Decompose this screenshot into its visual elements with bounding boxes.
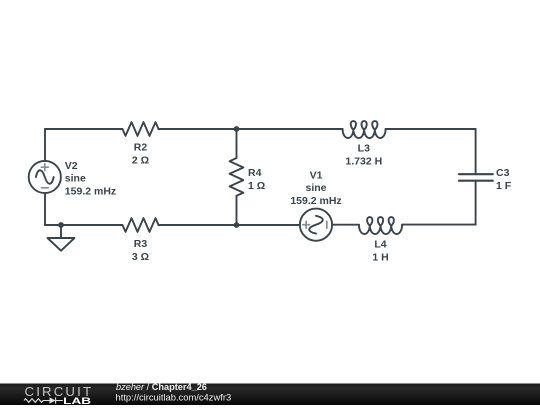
svg-text:http://circuitlab.com/c4zwfr3: http://circuitlab.com/c4zwfr3	[116, 391, 232, 402]
svg-text:L4: L4	[374, 239, 386, 251]
svg-text:1.732 H: 1.732 H	[345, 156, 382, 168]
inductor L4	[359, 217, 402, 234]
wire bottom right	[402, 224, 476, 226]
svg-text:R2: R2	[134, 142, 148, 154]
junction node top	[234, 126, 240, 132]
capacitor C3	[459, 174, 493, 181]
junction node ground	[58, 222, 64, 228]
wire right upper vertical	[475, 129, 477, 174]
svg-text:sine: sine	[305, 182, 326, 194]
label C3	[496, 167, 512, 192]
label V2	[65, 160, 116, 197]
resistor R2	[122, 122, 158, 136]
wire middle lower vertical	[236, 196, 238, 225]
svg-text:C3: C3	[496, 167, 510, 179]
svg-text:R3: R3	[134, 238, 148, 250]
inductor L3	[343, 121, 386, 138]
svg-text:1 H: 1 H	[372, 252, 388, 264]
svg-text:1 Ω: 1 Ω	[248, 180, 265, 192]
resistor R4	[230, 158, 244, 196]
svg-text:2 Ω: 2 Ω	[132, 155, 149, 167]
wire left lower vertical	[44, 193, 46, 225]
svg-text:L3: L3	[358, 143, 370, 155]
logo resistor zigzag and diode	[24, 397, 63, 403]
svg-text:V1: V1	[310, 170, 323, 182]
resistor R3	[122, 218, 158, 232]
label V1	[290, 170, 341, 207]
ground symbol	[48, 225, 75, 251]
wire top right	[386, 128, 476, 130]
label R3	[132, 238, 149, 263]
voltage source V2 circle	[29, 161, 61, 193]
svg-text:159.2 mHz: 159.2 mHz	[65, 185, 116, 197]
svg-text:V2: V2	[65, 160, 78, 172]
voltage source V1 circle	[300, 209, 332, 241]
svg-text:R4: R4	[248, 167, 262, 179]
voltage source V2 sine and polarity	[36, 164, 54, 188]
label R4	[248, 167, 265, 192]
wire left upper vertical	[44, 129, 46, 161]
wire top middle	[159, 128, 343, 130]
wire middle upper vertical	[236, 129, 238, 158]
wire right lower vertical	[475, 181, 477, 225]
wire V1 to L4	[332, 224, 359, 226]
label R2	[132, 142, 149, 167]
svg-text:1 F: 1 F	[496, 180, 512, 192]
wire bottom left to V1	[159, 224, 300, 226]
voltage source V1 sine and polarity	[303, 216, 327, 234]
junction node bottom	[234, 222, 240, 228]
svg-text:LAB: LAB	[63, 396, 91, 405]
label L4	[372, 239, 388, 264]
wire top-left horizontal	[45, 128, 122, 130]
svg-text:sine: sine	[65, 173, 86, 185]
svg-text:3 Ω: 3 Ω	[132, 251, 149, 263]
label L3	[345, 143, 382, 168]
svg-text:159.2 mHz: 159.2 mHz	[290, 195, 341, 207]
wire bottom far left	[45, 224, 122, 226]
